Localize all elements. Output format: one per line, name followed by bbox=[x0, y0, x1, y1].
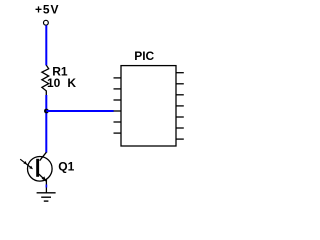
svg-text:PIC: PIC bbox=[134, 49, 154, 63]
svg-text:K: K bbox=[67, 76, 76, 90]
Q1 light arrow line bbox=[20, 159, 31, 168]
wire Q1 emitter to ground bbox=[45, 180, 47, 193]
svg-text:+5V: +5V bbox=[35, 3, 59, 17]
Q1 envelope circle bbox=[28, 157, 53, 182]
Q1 emitter arrowhead bbox=[42, 176, 46, 181]
svg-text:10: 10 bbox=[47, 76, 61, 90]
Q1 collector line bbox=[40, 152, 47, 161]
IC PIC body bbox=[121, 66, 176, 146]
Q1 emitter line bbox=[39, 174, 47, 181]
PIC right pins bbox=[176, 73, 184, 139]
ground bbox=[37, 193, 56, 201]
Q1 light arrowhead 1 bbox=[23, 161, 27, 165]
terminal +5V bbox=[44, 20, 49, 25]
node A junction dot bbox=[44, 109, 49, 114]
PIC left pins bbox=[114, 78, 122, 133]
transistor Q1 phototransistor bbox=[20, 152, 52, 181]
wire node A to PIC pin bbox=[46, 110, 113, 112]
Q1 light arrowhead 2 bbox=[29, 166, 33, 170]
Q1 base bar bbox=[36, 159, 39, 177]
svg-text:Q1: Q1 bbox=[58, 160, 74, 174]
label R1 value 10 K bbox=[47, 76, 76, 90]
wire +5V to R1 bbox=[45, 25, 47, 65]
resistor R1 bbox=[42, 65, 49, 95]
wire R1 to node A / Q1 collector bbox=[45, 95, 47, 153]
